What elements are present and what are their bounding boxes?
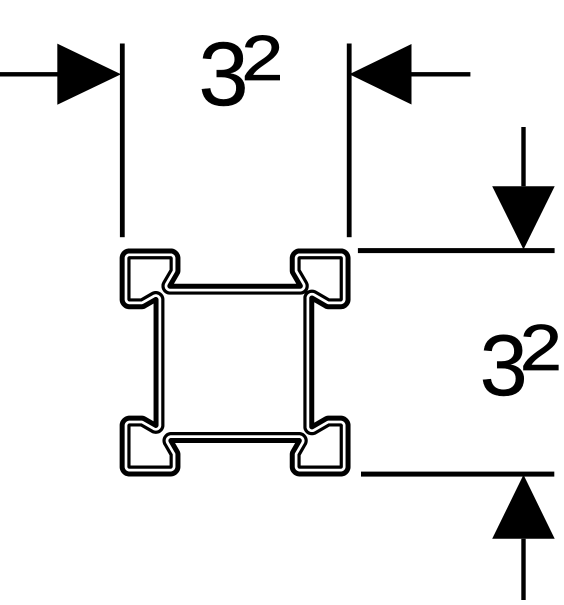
extension line left xyxy=(120,44,125,238)
dimension arrow up xyxy=(492,475,555,539)
dimension text superscript 2 (top) xyxy=(241,22,283,93)
dimension arrow left xyxy=(0,72,62,76)
svg-text:2: 2 xyxy=(241,22,283,93)
profile outline (32x32 square tube with corner pockets) xyxy=(125,254,345,471)
dimension text superscript 2 (right) xyxy=(520,311,562,384)
profile wall core xyxy=(126,255,344,470)
extension line right xyxy=(347,44,352,238)
svg-text:2: 2 xyxy=(520,311,562,384)
dimension arrow down xyxy=(521,127,525,186)
dimension arrow right xyxy=(349,44,411,105)
extension line top of right dimension xyxy=(358,248,555,253)
extension line bottom of right dimension xyxy=(361,472,554,477)
